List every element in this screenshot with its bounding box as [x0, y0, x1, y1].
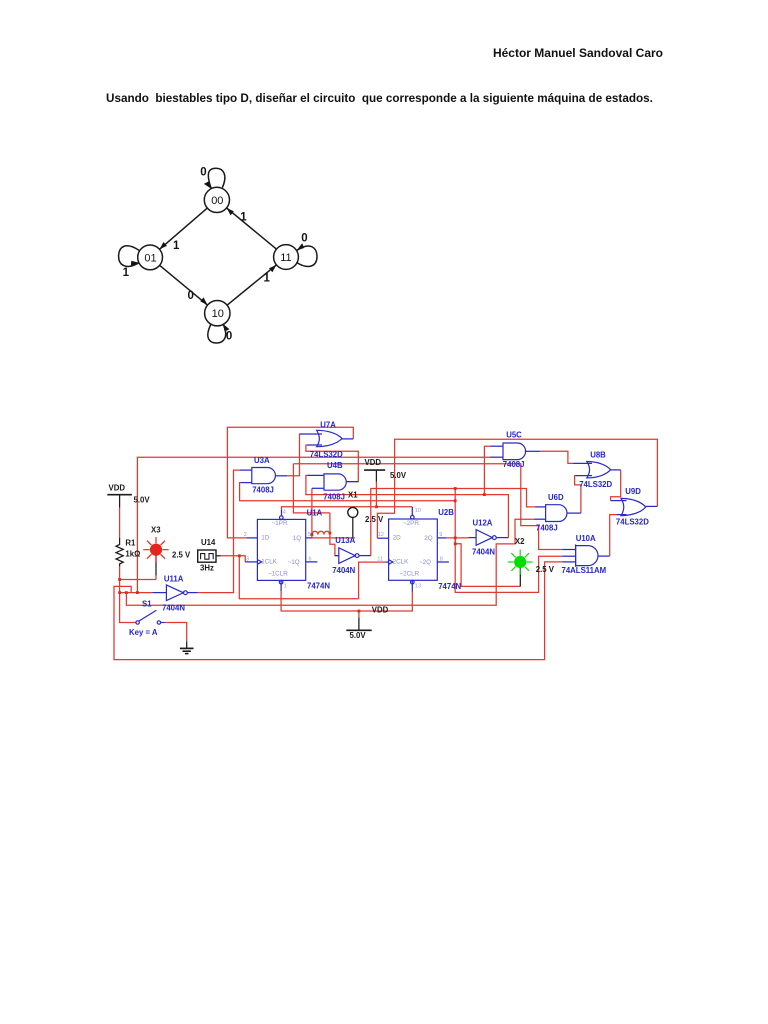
svg-text:7404N: 7404N: [472, 547, 495, 556]
svg-text:12: 12: [378, 532, 384, 538]
svg-text:10: 10: [212, 308, 224, 320]
svg-text:74LS32D: 74LS32D: [616, 518, 649, 527]
svg-text:~1PR: ~1PR: [272, 520, 288, 527]
svg-text:2D: 2D: [393, 535, 402, 542]
svg-text:0: 0: [301, 233, 307, 245]
svg-text:9: 9: [439, 532, 442, 538]
svg-text:7408J: 7408J: [503, 460, 525, 469]
svg-text:8: 8: [440, 556, 443, 562]
svg-text:VDD: VDD: [109, 483, 126, 492]
svg-text:1: 1: [173, 240, 180, 252]
svg-text:R1: R1: [125, 538, 136, 547]
svg-text:13: 13: [415, 583, 421, 589]
svg-text:00: 00: [211, 195, 223, 207]
svg-text:2.5 V: 2.5 V: [536, 565, 555, 574]
svg-text:~1CLR: ~1CLR: [268, 571, 288, 578]
svg-text:74LS32D: 74LS32D: [310, 450, 343, 459]
svg-text:~2PR: ~2PR: [403, 520, 419, 527]
svg-text:VDD: VDD: [365, 458, 382, 467]
svg-text:U14: U14: [201, 538, 216, 547]
svg-text:U12A: U12A: [473, 519, 493, 528]
svg-text:U4B: U4B: [327, 461, 343, 470]
svg-text:11: 11: [377, 556, 383, 562]
svg-text:~2Q: ~2Q: [419, 559, 431, 566]
svg-text:5: 5: [308, 532, 311, 538]
svg-text:7408J: 7408J: [536, 523, 558, 532]
svg-text:X1: X1: [348, 490, 358, 499]
svg-text:1: 1: [123, 267, 130, 279]
svg-text:5.0V: 5.0V: [350, 631, 367, 640]
svg-text:7474N: 7474N: [307, 582, 330, 591]
svg-text:Key = A: Key = A: [129, 628, 158, 637]
svg-text:U3A: U3A: [254, 456, 270, 465]
svg-text:11: 11: [280, 252, 291, 264]
svg-text:7408J: 7408J: [252, 486, 274, 495]
svg-text:1CLK: 1CLK: [261, 559, 278, 566]
svg-text:74ALS11AM: 74ALS11AM: [562, 566, 607, 575]
svg-text:~1Q: ~1Q: [288, 559, 300, 566]
svg-text:1Q: 1Q: [293, 535, 302, 542]
svg-text:5.0V: 5.0V: [390, 471, 407, 480]
svg-text:VDD: VDD: [372, 606, 389, 615]
svg-text:X3: X3: [151, 525, 161, 534]
svg-text:1: 1: [284, 583, 287, 589]
svg-text:U1A: U1A: [307, 508, 323, 517]
svg-text:2: 2: [244, 532, 247, 538]
svg-text:1D: 1D: [261, 535, 270, 542]
svg-text:01: 01: [144, 252, 156, 264]
svg-text:1kΩ: 1kΩ: [125, 550, 140, 559]
svg-text:U8B: U8B: [590, 450, 606, 459]
svg-text:0: 0: [200, 166, 206, 178]
svg-text:7474N: 7474N: [438, 582, 461, 591]
svg-text:3Hz: 3Hz: [200, 563, 214, 572]
svg-text:0: 0: [188, 290, 194, 302]
svg-text:U7A: U7A: [320, 420, 336, 429]
svg-text:U9D: U9D: [625, 487, 641, 496]
svg-text:2Q: 2Q: [424, 535, 433, 542]
svg-text:U13A: U13A: [335, 536, 355, 545]
svg-text:5.0V: 5.0V: [134, 496, 151, 505]
svg-text:6: 6: [309, 556, 312, 562]
svg-text:U5C: U5C: [506, 431, 522, 440]
svg-text:7404N: 7404N: [332, 566, 355, 575]
svg-text:2.5 V: 2.5 V: [365, 515, 384, 524]
svg-text:2.5 V: 2.5 V: [172, 550, 191, 559]
svg-text:S1: S1: [142, 599, 152, 608]
svg-text:1: 1: [264, 273, 271, 285]
svg-text:3: 3: [246, 556, 249, 562]
svg-text:1: 1: [240, 212, 247, 224]
svg-text:U2B: U2B: [438, 508, 454, 517]
svg-text:7404N: 7404N: [162, 603, 185, 612]
svg-text:10: 10: [415, 508, 421, 514]
svg-text:74LS32D: 74LS32D: [579, 480, 612, 489]
svg-text:2CLK: 2CLK: [393, 559, 410, 566]
svg-text:0: 0: [226, 331, 232, 343]
svg-text:~2CLR: ~2CLR: [399, 571, 419, 578]
svg-text:U6D: U6D: [548, 493, 564, 502]
svg-text:U10A: U10A: [576, 534, 596, 543]
svg-text:4: 4: [283, 509, 286, 515]
svg-text:7408J: 7408J: [323, 493, 345, 502]
svg-text:X2: X2: [515, 537, 525, 546]
svg-text:U11A: U11A: [164, 575, 184, 584]
